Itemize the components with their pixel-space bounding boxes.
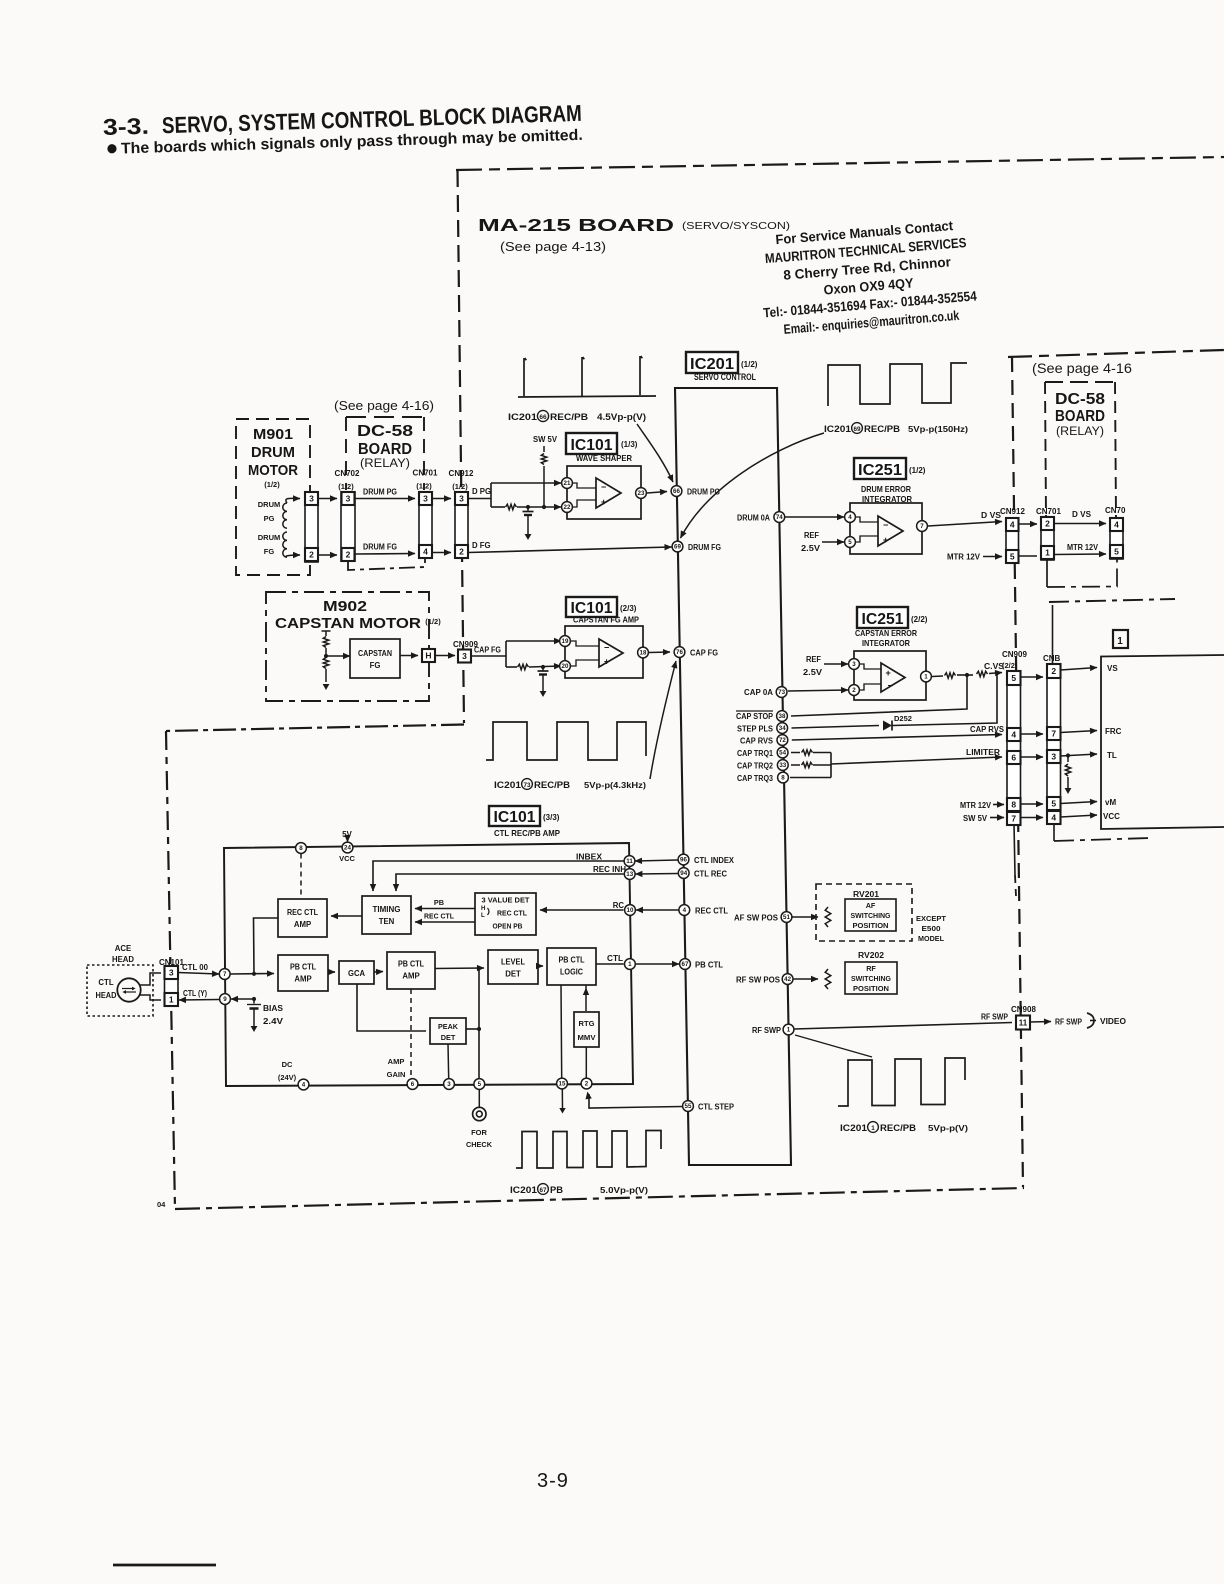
wire CN908 out RF SWP to video	[1030, 1021, 1051, 1024]
junction dot SW5V rail	[542, 505, 546, 509]
svg-text:H: H	[425, 651, 431, 661]
op-amp U251a pin 7	[917, 521, 928, 532]
svg-text:C.VS: C.VS	[984, 662, 1004, 671]
svg-text:HEAD: HEAD	[96, 991, 117, 1000]
svg-text:(RELAY): (RELAY)	[360, 458, 410, 470]
op-amp capstan integrator triangle	[881, 663, 905, 692]
svg-text:SW 5V: SW 5V	[533, 435, 558, 444]
svg-text:−: −	[604, 643, 609, 653]
junction dot TL resistor	[1066, 753, 1070, 757]
connector CN912 body (right)	[1006, 518, 1019, 563]
svg-text:CTL STEP: CTL STEP	[698, 1103, 734, 1112]
junction dot after first resistor	[965, 673, 969, 677]
svg-text:4: 4	[1051, 813, 1056, 823]
svg-text:13: 13	[626, 871, 633, 878]
connector CN909 pin 4	[1007, 728, 1021, 741]
svg-text:D252: D252	[894, 714, 912, 723]
block TIMING TEN	[362, 896, 411, 934]
svg-text:GCA: GCA	[348, 969, 365, 978]
Mauritron service stamp	[757, 217, 979, 339]
svg-text:3: 3	[309, 494, 314, 504]
svg-text:SW 5V: SW 5V	[963, 814, 988, 823]
svg-text:2: 2	[346, 550, 351, 560]
wire M901 pin3 to CN702 pin3	[318, 498, 337, 500]
svg-text:4: 4	[683, 907, 687, 914]
svg-text:+: +	[601, 497, 606, 507]
connector CN909 (2/2) body	[1007, 671, 1021, 824]
svg-text:7: 7	[920, 523, 924, 530]
svg-text:(SERVO/SYSCON): (SERVO/SYSCON)	[682, 220, 790, 232]
svg-text:REC CTL: REC CTL	[497, 909, 528, 918]
svg-text:76: 76	[676, 649, 683, 656]
svg-text:72: 72	[779, 737, 786, 744]
svg-text:VCC: VCC	[1103, 812, 1120, 821]
wire CAP RVS to CN909 pin4	[792, 735, 1002, 741]
svg-text:(2/3): (2/3)	[620, 604, 637, 613]
svg-text:RF SWP: RF SWP	[981, 1013, 1008, 1022]
svg-text:M901: M901	[253, 426, 293, 443]
svg-text:9: 9	[223, 996, 227, 1003]
svg-text:BOARD: BOARD	[358, 441, 412, 458]
wire IC201 pin96 to pin11	[635, 860, 678, 861]
capacitor to ground	[527, 507, 529, 512]
connector CNB pin 5	[1047, 797, 1061, 810]
op-amp drum integrator triangle	[878, 516, 903, 546]
svg-text:(See page 4-16: (See page 4-16	[1032, 360, 1132, 376]
svg-text:RV201: RV201	[853, 890, 880, 899]
svg-text:INTEGRATOR: INTEGRATOR	[862, 638, 910, 648]
svg-text:ACE: ACE	[115, 944, 131, 953]
svg-text:DRUM 0A: DRUM 0A	[737, 514, 770, 523]
connector CN702 body	[341, 492, 355, 561]
op-amp U251b pin 3	[849, 659, 860, 670]
connector CN701 right pin 2	[1041, 517, 1054, 530]
IC201 pin 55 CTL STEP	[683, 1101, 694, 1112]
wire INBEX from pin11	[373, 861, 624, 891]
svg-text:REC CTL: REC CTL	[424, 912, 455, 921]
IC101c bottom pin 4	[298, 1079, 309, 1090]
wire head to CN101 pin3	[140, 973, 161, 985]
wire RTG MMV down to pin2	[585, 1047, 587, 1079]
svg-text:DC-58: DC-58	[357, 423, 413, 440]
battery BIAS 2.4V	[253, 999, 255, 1004]
svg-text:DRUM: DRUM	[251, 444, 295, 461]
IC101 (1/3) label box	[566, 433, 617, 454]
motor M902 dash-dot box	[266, 592, 429, 701]
svg-text:4: 4	[1114, 520, 1119, 530]
connector CN912 right pin 5	[1006, 550, 1019, 563]
svg-text:2: 2	[852, 687, 856, 694]
connector CN101 body	[165, 966, 179, 1006]
svg-text:SWITCHING: SWITCHING	[851, 974, 891, 983]
svg-text:IC201: IC201	[510, 1185, 537, 1195]
DC-58 board box (right)	[1045, 381, 1115, 383]
op-amp U wave-shaper box	[567, 466, 641, 519]
wire pin74 to integrator pin4	[785, 516, 844, 518]
IC101 (3/3) label box	[489, 806, 540, 826]
svg-text:66: 66	[539, 414, 547, 421]
svg-text:7: 7	[1011, 814, 1016, 824]
svg-text:PB: PB	[434, 898, 444, 907]
block CAPSTAN FG	[350, 639, 400, 678]
wire LEVEL DET to PB CTL LOGIC	[538, 965, 543, 967]
svg-text:CN908: CN908	[1011, 1005, 1036, 1014]
svg-text:5: 5	[1010, 552, 1015, 562]
TRQ summing vertical	[830, 753, 832, 778]
wire D PG to input node	[468, 498, 491, 500]
connector CN909 pin 8	[1007, 798, 1021, 811]
IC201 (1/2) label box	[686, 352, 738, 373]
op-amp pin 21	[562, 478, 573, 489]
svg-text:5: 5	[1051, 799, 1056, 809]
wire D FG to IC201 pin69	[468, 547, 672, 553]
op-amp FG pin 18	[638, 647, 649, 658]
svg-text:+: +	[883, 535, 888, 545]
svg-text:(24V): (24V)	[278, 1073, 297, 1082]
connector CN912 pin 2	[455, 545, 468, 558]
svg-text:D VS: D VS	[1072, 510, 1091, 519]
connector CN70x pin 4	[1110, 518, 1123, 531]
connector M901 pin 2	[305, 548, 318, 561]
svg-text:5.0Vp-p(V): 5.0Vp-p(V)	[600, 1185, 648, 1195]
svg-text:(1/2): (1/2)	[338, 482, 354, 491]
wire pin1 to IC201 pin67	[636, 963, 679, 965]
svg-text:REF: REF	[806, 655, 821, 664]
block PB CTL AMP 2	[387, 952, 435, 989]
wire PEAK DET down to pin3	[447, 1044, 450, 1079]
MA-215 board border bottom (dash-dot)	[175, 1188, 1024, 1209]
svg-text:20: 20	[562, 663, 569, 670]
op-amp FG amp triangle	[599, 639, 623, 667]
svg-text:73: 73	[778, 689, 785, 696]
svg-text:DET: DET	[441, 1033, 456, 1042]
subtitle bullet note	[107, 127, 583, 158]
MA-215 board border right (dashed)	[1012, 357, 1023, 1187]
block 3 VALUE DET REC CTL OPEN PB	[475, 893, 536, 935]
wire CN909 pin6 to CNB pin3	[1021, 756, 1044, 758]
svg-text:3 VALUE DET: 3 VALUE DET	[482, 896, 531, 905]
svg-text:3-9: 3-9	[537, 1470, 569, 1492]
svg-text:1: 1	[1045, 548, 1050, 558]
IC label box partial (cut)	[1113, 630, 1128, 648]
wire CNB pin3 to TL	[1061, 754, 1098, 756]
wire STEP PLS with diode	[792, 726, 880, 729]
wire CN909 pin8 to CNB pin5	[1021, 803, 1044, 805]
wire lower branch to resistor (FG amp)	[506, 666, 517, 668]
motor M901 dashed box	[236, 419, 310, 575]
wire resistor to FG amp pin 20	[529, 666, 561, 667]
IC101c pin 10	[625, 905, 636, 916]
waveform drum PG pulses	[518, 356, 656, 397]
IC101c bottom pin 15	[557, 1078, 568, 1089]
connector CN101 pin 3	[165, 966, 179, 979]
svg-text:3: 3	[462, 651, 467, 661]
block REC CTL AMP	[278, 899, 327, 937]
svg-text:−: −	[601, 482, 606, 492]
op-amp U251b pin 2	[849, 685, 860, 696]
connector pin H	[422, 649, 435, 662]
svg-text:POSITION: POSITION	[853, 921, 889, 930]
svg-text:5V: 5V	[342, 830, 352, 839]
wire CNB pin5 to vM	[1061, 802, 1098, 804]
IC101c pin 13	[624, 869, 635, 880]
IC101c pin 24 VCC	[342, 842, 353, 853]
connector CN702 pin 3	[342, 492, 355, 505]
svg-text:CAP RVS: CAP RVS	[740, 737, 773, 746]
node input split vertical	[490, 483, 492, 507]
IC201 pin 67 PB CTL	[680, 959, 691, 970]
wire pin42 to RV202	[794, 978, 818, 980]
op-amp drum int input stubs	[855, 517, 878, 522]
IC101c pin 11	[624, 856, 635, 867]
wire REC INH from pin13	[396, 874, 624, 891]
svg-text:+: +	[886, 668, 891, 678]
wire tap to REC CTL AMP input	[254, 918, 279, 974]
svg-text:M902: M902	[323, 599, 367, 615]
IC101 (2/3) label box	[566, 597, 617, 617]
svg-text:AMP: AMP	[388, 1057, 405, 1066]
svg-text:4.5Vp-p(V): 4.5Vp-p(V)	[597, 412, 646, 423]
svg-text:94: 94	[680, 870, 687, 877]
IC201 pin 69 DRUM FG	[672, 541, 683, 552]
svg-text:CHECK: CHECK	[466, 1140, 493, 1149]
op-amp FG input stubs	[570, 641, 599, 646]
svg-text:RF SWP: RF SWP	[1055, 1018, 1082, 1027]
svg-text:PB CTL: PB CTL	[290, 963, 316, 972]
svg-text:SWITCHING: SWITCHING	[851, 911, 891, 920]
svg-text:04: 04	[157, 1200, 166, 1209]
svg-text:CTL REC/PB AMP: CTL REC/PB AMP	[494, 828, 560, 838]
svg-text:4: 4	[1011, 730, 1016, 740]
svg-text:STEP PLS: STEP PLS	[737, 725, 773, 734]
wire H to CN909 pin3	[435, 655, 455, 657]
wire CN909 pin5 to CNB pin2	[1021, 676, 1044, 678]
svg-text:AF SW POS: AF SW POS	[734, 914, 778, 923]
svg-text:AF: AF	[866, 901, 876, 910]
wire resistor to junction	[517, 506, 561, 508]
svg-text:19: 19	[562, 638, 569, 645]
svg-text:3: 3	[346, 494, 351, 504]
svg-text:10: 10	[627, 907, 634, 914]
svg-text:DC-58: DC-58	[1055, 391, 1105, 408]
svg-text:PG: PG	[264, 514, 275, 523]
wire CNB pin2 up to board edge	[1052, 605, 1054, 664]
wire pin73 to capstan pin2	[788, 690, 848, 691]
svg-text:2.4V: 2.4V	[263, 1017, 284, 1026]
wire to op-amp pin 21	[491, 482, 561, 484]
svg-text:−: −	[888, 681, 893, 691]
svg-text:DET: DET	[505, 970, 521, 979]
svg-text:69: 69	[674, 544, 681, 551]
wire lower branch to resistor	[491, 506, 505, 508]
svg-text:2: 2	[309, 550, 314, 560]
svg-text:(2/2): (2/2)	[1002, 661, 1018, 670]
capstan FG input split vertical	[505, 641, 507, 667]
connector CN701 body	[419, 492, 432, 558]
wire CNB pin2 to VS	[1061, 668, 1098, 671]
wire CNB pin7 to FRC	[1061, 731, 1098, 733]
connector CN70x body	[1110, 518, 1123, 559]
op-amp wave-shaper triangle	[596, 478, 621, 508]
svg-text:D VS: D VS	[981, 511, 1001, 520]
wire winding top to motor pin 3	[286, 498, 300, 503]
wire LOGIC down to RTG MMV	[585, 985, 587, 1011]
page 4-16 box top border	[1008, 350, 1224, 357]
potentiometer RV202	[825, 969, 831, 989]
svg-text:55: 55	[685, 1103, 692, 1110]
junction dot CTL line	[252, 972, 256, 976]
wire CN701 pin3 to CN912 pin3	[432, 498, 451, 500]
svg-text:3: 3	[1051, 752, 1056, 762]
svg-text:CTL: CTL	[98, 978, 113, 987]
IC101c pin 1	[625, 959, 636, 970]
svg-text:3: 3	[447, 1081, 451, 1088]
svg-text:3: 3	[423, 494, 428, 504]
resistor TL to ground	[1067, 756, 1069, 763]
svg-text:1: 1	[787, 1027, 791, 1034]
op-amp FG amp box	[565, 626, 643, 678]
svg-text:(1/3): (1/3)	[621, 440, 638, 449]
section title 3-3 SERVO SYSTEM CONTROL BLOCK DIAGRAM	[103, 100, 583, 140]
svg-text:TL: TL	[1107, 751, 1117, 760]
svg-text:D PG: D PG	[472, 487, 491, 496]
svg-text:CAP TRQ3: CAP TRQ3	[737, 774, 774, 783]
svg-text:PEAK: PEAK	[438, 1022, 459, 1031]
svg-text:DRUM: DRUM	[258, 533, 281, 542]
CTL head symbol	[117, 978, 140, 1001]
connector CN701 right pin 1	[1041, 546, 1054, 559]
svg-text:54: 54	[779, 750, 786, 757]
wire GCA down to PEAK DET	[357, 984, 426, 1031]
wire pin7 to PB CTL AMP	[230, 973, 274, 976]
inductor drum FG winding	[283, 532, 287, 557]
svg-text:18: 18	[640, 650, 647, 657]
svg-text:LEVEL: LEVEL	[501, 958, 525, 967]
svg-text:LOGIC: LOGIC	[560, 968, 583, 977]
svg-text:MTR 12V: MTR 12V	[1067, 543, 1099, 552]
svg-text:CAPSTAN FG AMP: CAPSTAN FG AMP	[573, 615, 639, 625]
MA-215 board border left lower (dashed)	[166, 731, 175, 1209]
op-amp pin 22	[562, 502, 573, 513]
svg-text:(2/2): (2/2)	[911, 615, 928, 624]
connector CN701 body (right)	[1041, 517, 1054, 560]
svg-text:IC251: IC251	[862, 611, 904, 628]
svg-text:EXCEPT: EXCEPT	[916, 914, 946, 923]
wire CAP FG to input node	[471, 655, 506, 657]
callout curve to pin 76	[650, 661, 676, 779]
wire LOGIC to pin1 CTL	[596, 963, 624, 965]
op-amp pin 23	[636, 488, 647, 499]
wire pin51 to RV201	[793, 916, 819, 918]
waveform RF SWP	[838, 1058, 965, 1106]
svg-text:4: 4	[302, 1082, 306, 1089]
svg-text:CAP STOP: CAP STOP	[736, 712, 773, 721]
svg-text:RC: RC	[613, 901, 625, 910]
svg-text:REC CTL: REC CTL	[695, 907, 728, 916]
svg-text:FOR: FOR	[471, 1128, 487, 1137]
svg-text:34: 34	[779, 725, 786, 732]
wire RF SWP to CN908	[794, 1023, 1012, 1030]
svg-text:TEN: TEN	[379, 917, 395, 926]
svg-text:D FG: D FG	[472, 541, 491, 550]
wire CNB pin4 down with dash	[1053, 824, 1055, 841]
svg-text:CN702: CN702	[335, 469, 360, 478]
svg-text:BOARD: BOARD	[1055, 408, 1105, 425]
test point FOR CHECK	[478, 1090, 480, 1108]
IC251 (2/2) label box	[857, 607, 908, 628]
callout curve to pin 66	[637, 424, 673, 482]
IC101c bottom pin 5	[474, 1079, 485, 1090]
svg-text:3: 3	[169, 968, 174, 978]
svg-text:CTL 00: CTL 00	[182, 963, 209, 972]
wire PB AMP1 to GCA	[328, 971, 335, 973]
connector CNB pin 2	[1047, 664, 1061, 678]
svg-text:−: −	[883, 520, 888, 530]
connector CN912 right pin 4	[1006, 518, 1019, 531]
connector CNB pin 4	[1047, 811, 1061, 824]
svg-text:REC/PB: REC/PB	[534, 780, 571, 790]
svg-text:WAVE SHAPER: WAVE SHAPER	[576, 453, 632, 463]
svg-text:33: 33	[779, 762, 786, 769]
connector M901 pin 3	[305, 492, 318, 505]
wire REF to integrator pin5	[822, 541, 844, 543]
svg-text:DRUM: DRUM	[258, 500, 281, 509]
op-amp FG pin 19	[560, 636, 571, 647]
waveform CTL PB 5.0Vp-p	[516, 1131, 661, 1169]
svg-text:67: 67	[682, 961, 689, 968]
inductor drum PG winding	[283, 503, 287, 528]
svg-text:REC/PB: REC/PB	[864, 424, 901, 434]
wire CN701 pin4 to CN912 pin2	[432, 552, 451, 554]
svg-text:5: 5	[1011, 673, 1016, 683]
IC201 pin 76 CAP FG	[674, 647, 685, 658]
svg-text:IC201: IC201	[508, 412, 538, 423]
svg-text:7: 7	[1051, 729, 1056, 739]
svg-text:CN701: CN701	[413, 469, 438, 478]
svg-text:CN909: CN909	[1002, 650, 1027, 659]
svg-text:4: 4	[423, 547, 428, 557]
svg-text:CAP TRQ2: CAP TRQ2	[737, 762, 774, 771]
svg-text:L: L	[481, 912, 485, 919]
test point below pin 15	[561, 1089, 563, 1108]
svg-text:LIMITER: LIMITER	[966, 748, 1000, 757]
junction dot bias node	[252, 997, 256, 1001]
power wire SW5V with resistor	[543, 446, 545, 452]
svg-text:E500: E500	[922, 924, 941, 933]
svg-text:IC201: IC201	[494, 780, 521, 790]
connector CN908 pin 11	[1016, 1016, 1030, 1030]
svg-text:H: H	[481, 905, 486, 912]
IC201 pin 94 CTL REC	[678, 868, 689, 879]
svg-text:1: 1	[1117, 636, 1123, 647]
svg-text:73: 73	[523, 782, 531, 789]
op-amp FG pin 20	[560, 661, 571, 672]
svg-text:FRC: FRC	[1105, 727, 1122, 736]
svg-text:1: 1	[924, 674, 928, 681]
svg-text:REC CTL: REC CTL	[287, 908, 318, 917]
svg-text:74: 74	[776, 514, 783, 521]
svg-text:PB: PB	[550, 1185, 564, 1195]
svg-text:21: 21	[564, 480, 571, 487]
svg-text:MA-215 BOARD: MA-215 BOARD	[478, 215, 674, 235]
svg-text:5Vp-p(V): 5Vp-p(V)	[928, 1123, 968, 1133]
vertical wire junction to pin5	[478, 968, 480, 1078]
svg-text:2: 2	[459, 547, 464, 557]
svg-text:CAP 0A: CAP 0A	[744, 688, 773, 697]
svg-text:22: 22	[564, 504, 571, 511]
MA-215 board border left upper (dashed)	[458, 170, 465, 723]
connector CNB pin 7	[1047, 727, 1061, 740]
